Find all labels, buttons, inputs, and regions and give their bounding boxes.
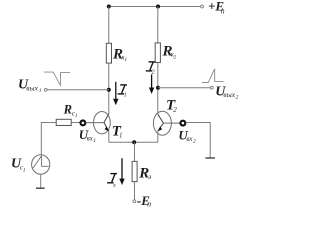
- wire: left output: [47, 89, 109, 91]
- node: +En terminal circle: [201, 5, 204, 8]
- svg-text:2: 2: [174, 54, 177, 60]
- label Iэ: [107, 174, 117, 183]
- wire: right branch upper: [157, 7, 159, 44]
- current arrow Iэ: [121, 158, 123, 179]
- resistor Rk1: [106, 43, 111, 63]
- svg-text:1: 1: [23, 167, 26, 173]
- wire: R3 to -En: [134, 182, 136, 200]
- node: -En terminal circle: [133, 200, 136, 203]
- svg-text:1: 1: [119, 132, 123, 140]
- wire: right output: [158, 87, 211, 89]
- node: junction dot left output tap: [107, 88, 111, 92]
- resistor Rk2: [155, 43, 160, 63]
- source Uc1: [32, 155, 50, 174]
- current arrow I1: [115, 82, 117, 100]
- svg-text:2: 2: [173, 106, 177, 114]
- resistor Rэ: [132, 161, 137, 181]
- svg-text:1: 1: [124, 57, 127, 63]
- svg-text:вых: вых: [26, 83, 38, 92]
- svg-text:э: э: [148, 173, 151, 181]
- wire: Uc1 to ground: [40, 174, 42, 188]
- wire: left branch upper: [108, 7, 110, 44]
- svg-text:п: п: [221, 6, 225, 15]
- wire: left of Rc1 and down: [41, 123, 56, 156]
- wire: common emitter horizontal: [109, 141, 158, 143]
- node: junction dot emitter common: [132, 140, 136, 144]
- svg-text:1: 1: [75, 113, 78, 119]
- label I1: [118, 85, 127, 94]
- waveform symbol left output: [44, 72, 70, 86]
- node: junction dot left top: [107, 5, 111, 9]
- svg-text:п: п: [147, 200, 151, 209]
- svg-text:R: R: [63, 103, 72, 117]
- node: junction dot right output tap: [156, 86, 160, 90]
- svg-text:1: 1: [124, 93, 127, 99]
- wire: down to R3: [134, 142, 136, 161]
- svg-text:1: 1: [93, 138, 96, 144]
- svg-text:вых: вых: [223, 90, 235, 99]
- wire: right branch from Rk2 to collector: [157, 63, 159, 115]
- ground right: [205, 157, 215, 159]
- ground left: [36, 187, 45, 189]
- wire: T2 emitter down: [157, 131, 159, 142]
- node: Uвых1 terminal circle: [44, 88, 47, 91]
- node: Uвх1 bold terminal: [81, 121, 86, 126]
- wire: Rc1 to terminal: [71, 122, 80, 124]
- transistor T2: [153, 111, 180, 135]
- svg-text:1: 1: [39, 88, 42, 94]
- label I2: [146, 62, 155, 71]
- current arrow I2: [151, 74, 153, 88]
- transistor T1: [86, 112, 110, 134]
- wire: Uвх2 terminal to ground: [186, 123, 211, 158]
- wire: top supply rail: [109, 6, 201, 8]
- wire: left branch from Rk1 to collector: [108, 63, 110, 114]
- svg-text:2: 2: [152, 70, 155, 76]
- svg-text:э: э: [113, 183, 116, 189]
- svg-text:2: 2: [193, 139, 196, 145]
- node: junction dot right top: [156, 5, 160, 9]
- svg-text:2: 2: [236, 95, 239, 101]
- wire: T1 emitter down: [108, 131, 110, 142]
- resistor Rc1: [56, 119, 71, 125]
- node: Uвых2 terminal circle: [210, 86, 213, 89]
- node: Uвх2 bold terminal: [181, 121, 186, 126]
- waveform symbol right output: [202, 69, 224, 83]
- wire: terminal to T1 base: [86, 122, 94, 124]
